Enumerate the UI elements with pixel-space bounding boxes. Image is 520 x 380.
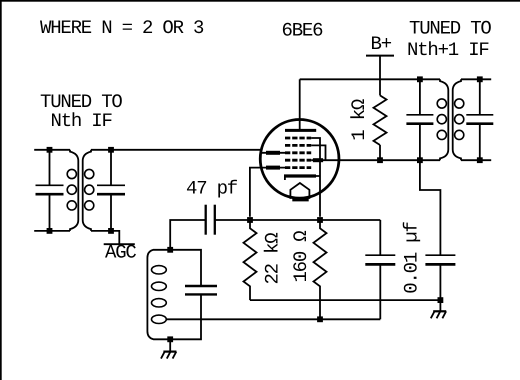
svg-text:WHERE N = 2 OR 3: WHERE N = 2 OR 3: [40, 17, 204, 39]
junction dot T2 top-right: [477, 76, 483, 82]
svg-text:B+: B+: [371, 33, 392, 55]
resistor R1 1 kOhm: [374, 95, 387, 160]
tube V1 grid G5 to cathode connector: [311, 138, 320, 217]
svg-text:0.01 µf: 0.01 µf: [401, 221, 423, 293]
wire coil tap to cathode bypass: [166, 318, 380, 320]
junction dot T2 top-left: [417, 76, 423, 82]
svg-text:TUNED TO: TUNED TO: [409, 18, 491, 40]
junction dot G1 node: [247, 217, 253, 223]
junction dot R1 bottom on screen line: [377, 157, 383, 163]
tube V1 cathode: [284, 174, 316, 177]
junction dot T2 bottom-right: [477, 157, 483, 163]
transformer T1 primary stub wire bottom: [34, 230, 70, 232]
svg-text:6BE6: 6BE6: [282, 20, 324, 42]
tube V1 grid G1 lead (left, oscillator): [250, 168, 285, 217]
wire B+ feed down to R1: [379, 56, 381, 96]
capacitor C3 47 pf: [205, 205, 207, 235]
resistor R2 22 kOhm: [244, 220, 257, 300]
capacitor C7 cathode bypass: [379, 220, 381, 319]
capacitor C5 (T2 primary tuning): [419, 79, 421, 160]
node AGC: [104, 242, 137, 264]
junction dot T1 bottom-right: [108, 228, 114, 234]
svg-text:Nth IF: Nth IF: [51, 110, 113, 132]
tube V1 screen lead tab (right): [313, 158, 323, 162]
junction dot T1 bottom-left: [47, 228, 53, 234]
junction dot ground node: [438, 297, 444, 303]
svg-text:Nth+1 IF: Nth+1 IF: [407, 39, 489, 61]
wire oscillator grid node (C3 to G1/22k junction and on to cathode bypass corner): [170, 220, 380, 250]
capacitor C4 oscillator tank: [170, 250, 201, 339]
tube V1 heater: [290, 183, 309, 199]
tube V1 grid row 3: [285, 151, 311, 154]
svg-text:1 kΩ: 1 kΩ: [348, 99, 370, 141]
tube V1 6BE6 envelope: [260, 120, 339, 199]
wire plate to T2 primary: [300, 78, 440, 80]
wire T2 secondary bottom stub: [461, 159, 491, 161]
junction dot T2 bottom-left: [417, 157, 423, 163]
capacitor C1 (T1 primary tuning): [49, 150, 51, 231]
inductor T2 primary winding: [437, 79, 448, 160]
resistor R3 160 Ohm: [314, 220, 327, 319]
capacitor C8 0.01 uf screen bypass: [420, 160, 441, 300]
tube V1 grid G3 lead (left, signal): [261, 152, 285, 154]
wire T2 secondary top stub: [461, 78, 491, 80]
tube V1 grid row 1: [285, 137, 311, 140]
tube V1 grid row 2: [285, 144, 311, 147]
junction dot tap/160 ohm: [317, 316, 323, 322]
border frame top edge: [0, 0, 520, 2]
junction dot cathode node: [317, 217, 323, 223]
ground symbol (screen bypass): [431, 300, 446, 318]
inductor L1 oscillator coil: [147, 250, 170, 339]
ground symbol (oscillator tank): [161, 339, 176, 358]
tube V1 grid row 4: [285, 159, 311, 162]
wire 22k bottom to ground node: [250, 299, 440, 301]
svg-text:22 kΩ: 22 kΩ: [262, 233, 284, 285]
wire T1 secondary bottom to AGC: [91, 231, 119, 244]
tube V1 plate: [285, 129, 316, 132]
junction dot L1 bottom: [167, 336, 173, 342]
inductor T2 secondary winding: [453, 79, 464, 160]
transformer T1 (Nth IF) primary stub wire top: [34, 149, 70, 151]
tube V1 grid G2-G4 tie: [311, 145, 325, 160]
svg-text:AGC: AGC: [105, 242, 136, 264]
junction dot T1 top-left: [47, 147, 53, 153]
capacitor C2 (T1 secondary tuning): [110, 150, 112, 231]
capacitor C6 (T2 secondary tuning): [479, 79, 481, 160]
junction dot T1 top-right: [108, 147, 114, 153]
wire T1 secondary top to tube grid G3: [91, 150, 261, 153]
inductor T1 primary winding: [67, 150, 78, 231]
svg-text:47 pf: 47 pf: [186, 178, 238, 200]
wire plate lead up: [299, 79, 301, 130]
wire screen line (tube to T2 primary bottom): [311, 159, 440, 161]
inductor T1 secondary winding: [83, 150, 94, 231]
svg-text:160 Ω: 160 Ω: [290, 231, 312, 283]
border frame left edge: [0, 0, 2, 380]
junction dot L1 top: [167, 247, 173, 253]
tube V1 grid row 5: [285, 166, 311, 169]
node B+ terminal: [366, 33, 394, 56]
